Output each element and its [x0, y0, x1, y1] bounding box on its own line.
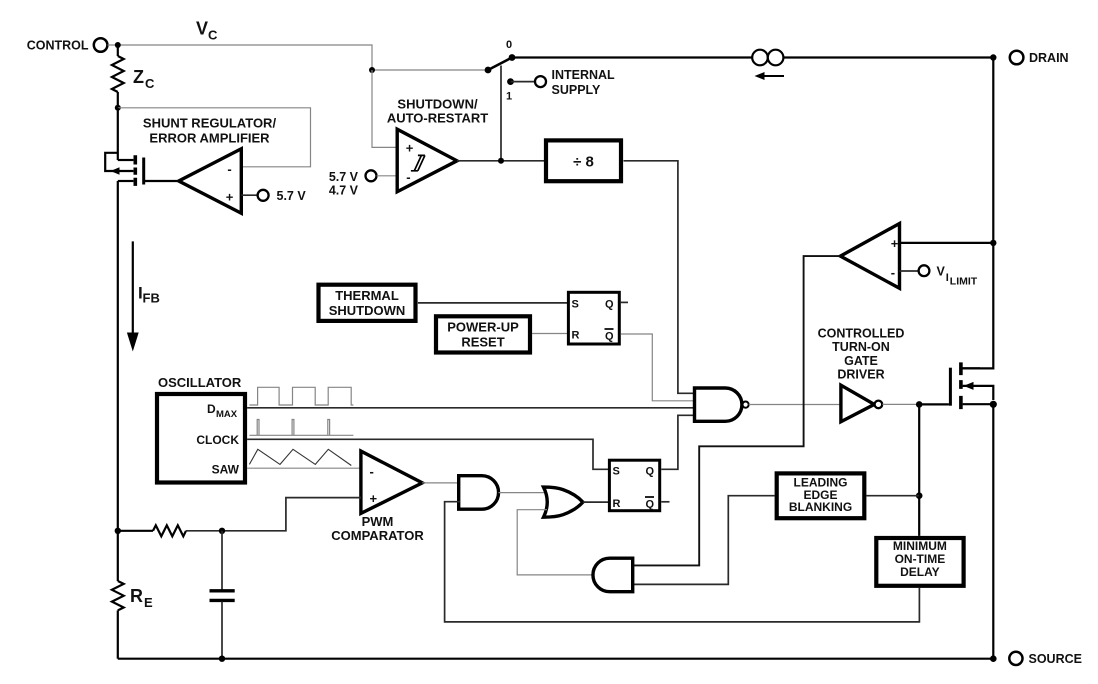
wire bottom rail to SOURCE [118, 658, 994, 660]
svg-text:TURN-ON: TURN-ON [832, 340, 890, 354]
wire right rail MOSFET source to SOURCE [992, 404, 994, 658]
wire ilimit minus stub [900, 270, 919, 272]
wire RE to bottom rail [117, 610, 119, 658]
svg-text:RESET: RESET [461, 335, 504, 350]
junction LEB tap [916, 492, 923, 499]
label controlled turn-on gate driver [818, 327, 905, 382]
terminal SOURCE [1009, 652, 1082, 666]
svg-text:SOURCE: SOURCE [1029, 652, 1082, 666]
resistor feedback [153, 525, 186, 536]
gate AND2 mirrored blanking [593, 558, 633, 592]
svg-text:BLANKING: BLANKING [789, 500, 852, 514]
wire VC rail from CONTROL to switch [108, 45, 486, 70]
svg-text:POWER-UP: POWER-UP [447, 320, 519, 335]
wire LEB input from gate node [866, 495, 919, 497]
wire divide by 8 to NAND input1 [624, 161, 695, 393]
block thermal shutdown [319, 285, 416, 321]
wire FF2 Q to NAND input4 [661, 415, 694, 469]
wire mirrored AND output to OR1 input2 [517, 510, 593, 575]
svg-text:S: S [613, 465, 620, 477]
svg-text:5.7 V: 5.7 V [329, 170, 359, 184]
svg-text:CONTROL: CONTROL [27, 39, 89, 53]
svg-text:D: D [207, 402, 216, 416]
wire driver output [882, 403, 919, 405]
svg-text:C: C [145, 76, 155, 91]
svg-text:E: E [144, 595, 153, 610]
comparator U5 current limit [840, 224, 899, 289]
svg-text:+: + [891, 236, 899, 251]
svg-text:R: R [130, 586, 143, 606]
svg-text:Z: Z [133, 67, 144, 87]
wire feedback to PWM plus [186, 498, 361, 531]
svg-text:R: R [572, 329, 580, 341]
resistor RE [112, 581, 153, 610]
buffer U4 gate driver [841, 385, 882, 422]
terminal DRAIN [1010, 51, 1069, 65]
wire comparator plus input [372, 70, 396, 147]
svg-text:Q: Q [605, 330, 614, 342]
svg-text:V: V [196, 19, 208, 39]
svg-text:V: V [937, 264, 946, 278]
junction ilimit sense [990, 240, 996, 246]
svg-text:-: - [891, 265, 895, 280]
junction ZC bottom node [115, 105, 121, 111]
node IFB arrow [127, 241, 160, 351]
wire ZC bottom [117, 92, 119, 108]
waveform DMAX [249, 387, 353, 405]
wire ZC top [117, 45, 119, 56]
svg-text:DRAIN: DRAIN [1029, 51, 1069, 65]
gate NAND1 [695, 388, 749, 421]
svg-text:-: - [227, 162, 231, 177]
wire AND1 output to OR1 [499, 492, 550, 494]
svg-text:LIMIT: LIMIT [950, 275, 978, 287]
junction gate node [916, 401, 923, 408]
label PWM comparator [331, 514, 424, 543]
svg-text:SUPPLY: SUPPLY [552, 83, 602, 97]
op-amp U1 shunt regulator error amplifier [179, 149, 242, 213]
label shunt regulator [143, 115, 277, 145]
svg-text:COMPARATOR: COMPARATOR [331, 528, 424, 543]
wire CLOCK to FF2 S [247, 439, 609, 469]
junction source node [990, 655, 997, 662]
svg-text:1: 1 [506, 91, 512, 103]
svg-text:+: + [226, 190, 234, 205]
transistor Q2 output MOSFET [950, 362, 997, 409]
svg-text:MINIMUM: MINIMUM [893, 539, 947, 553]
svg-text:INTERNAL: INTERNAL [552, 68, 616, 82]
wire NAND output to driver [749, 404, 841, 406]
svg-text:÷ 8: ÷ 8 [573, 153, 594, 170]
wire switch pole down to comparator output [500, 66, 502, 161]
switch blade auto-restart [485, 39, 516, 73]
svg-text:5.7 V: 5.7 V [277, 189, 307, 203]
waveform CLOCK [249, 420, 353, 436]
svg-text:OSCILLATOR: OSCILLATOR [158, 375, 242, 390]
junction drain node [990, 54, 996, 60]
svg-text:+: + [370, 491, 378, 506]
svg-text:CONTROLLED: CONTROLLED [818, 327, 905, 341]
current source [752, 50, 784, 80]
svg-text:Q: Q [646, 465, 655, 477]
wire FF2 Qbar stub [661, 501, 669, 503]
capacitor C1 [210, 531, 235, 662]
svg-text:MAX: MAX [216, 409, 238, 420]
svg-text:SHUNT REGULATOR/: SHUNT REGULATOR/ [143, 115, 277, 130]
svg-text:THERMAL: THERMAL [335, 288, 399, 303]
svg-text:Q: Q [605, 298, 614, 310]
transistor Q1 shunt MOSFET [105, 153, 177, 186]
svg-text:S: S [572, 298, 579, 310]
comparator U3 PWM [361, 451, 422, 513]
svg-text:DELAY: DELAY [900, 565, 940, 579]
wire power-up reset to R [532, 333, 567, 335]
svg-text:SHUTDOWN: SHUTDOWN [329, 303, 406, 318]
wire SAW to PWM comparator [247, 467, 361, 469]
flip-flop FF1 shutdown latch [568, 292, 619, 344]
block leading edge blanking [777, 473, 865, 518]
wire left rail down to RE [117, 181, 119, 581]
terminal VILIMIT [919, 264, 978, 287]
wire 5.7V reference stub [241, 194, 257, 196]
wire gate node to MOSFET gate [919, 403, 949, 405]
terminal CONTROL [27, 38, 108, 52]
svg-text:PWM: PWM [362, 514, 394, 529]
wire PWM output to AND1 [422, 482, 460, 484]
junction VC switch branch [369, 67, 375, 73]
svg-text:SHUTDOWN/: SHUTDOWN/ [397, 96, 478, 111]
svg-text:Q: Q [646, 498, 655, 510]
node VC label [196, 19, 218, 43]
svg-text:AUTO-RESTART: AUTO-RESTART [387, 111, 488, 126]
wire thermal shutdown to S [418, 302, 567, 304]
wire gate node down to LEB [918, 404, 920, 536]
svg-text:-: - [406, 169, 410, 184]
gate AND1 [459, 476, 499, 510]
svg-text:CLOCK: CLOCK [196, 433, 239, 447]
svg-text:I: I [946, 272, 949, 284]
wire LEB output to blanking AND input2 [634, 496, 775, 585]
block oscillator [157, 394, 245, 483]
wire ilimit plus input [900, 242, 994, 244]
svg-text:C: C [208, 28, 218, 43]
wire comparator output to divide by 8 [457, 160, 544, 162]
svg-text:FB: FB [143, 291, 160, 306]
svg-text:ON-TIME: ON-TIME [895, 552, 946, 566]
wire FF1 Qbar to NAND input2 [621, 334, 694, 401]
svg-text:DRIVER: DRIVER [837, 367, 884, 381]
contact 1 internal supply [506, 68, 615, 103]
block divide by 8 [546, 140, 621, 181]
svg-text:GATE: GATE [844, 354, 878, 368]
svg-text:-: - [370, 464, 374, 479]
wire min on-time delay to AND1 input2 [445, 502, 920, 622]
wire right rail drain down to MOSFET [963, 58, 994, 369]
svg-text:+: + [406, 140, 414, 155]
svg-text:0: 0 [506, 39, 512, 51]
block power-up reset [436, 316, 530, 352]
svg-text:ERROR AMPLIFIER: ERROR AMPLIFIER [149, 131, 270, 146]
block minimum on-time delay [876, 538, 963, 586]
svg-text:4.7 V: 4.7 V [329, 184, 359, 198]
junction control node [115, 42, 121, 48]
terminal 5.7V 4.7V threshold [329, 170, 396, 198]
flip-flop FF2 PWM latch [609, 460, 659, 511]
svg-text:R: R [613, 498, 621, 510]
waveform SAW [249, 449, 351, 465]
wire feedback loop to error amp inverting input [118, 108, 311, 167]
wire OR1 output to FF2 R [583, 501, 609, 503]
junction left rail feedback tap [115, 528, 121, 534]
junction capacitor tap [219, 528, 225, 534]
wire FF1 Q stub [621, 301, 628, 303]
svg-text:SAW: SAW [212, 463, 240, 477]
wire ilimit output to blanking AND [634, 256, 840, 565]
wire DMAX to NAND input3 [247, 407, 694, 409]
label shutdown auto-restart [387, 96, 488, 125]
wire feedback tap [118, 530, 153, 532]
wire left rail upper [117, 108, 119, 160]
gate OR1 [544, 487, 583, 517]
junction switch feed [498, 158, 504, 164]
comparator U2 shutdown auto-restart [397, 129, 457, 192]
resistor ZC [112, 56, 124, 92]
terminal 5.7V reference [258, 189, 307, 203]
wire top rail to DRAIN [512, 56, 993, 58]
